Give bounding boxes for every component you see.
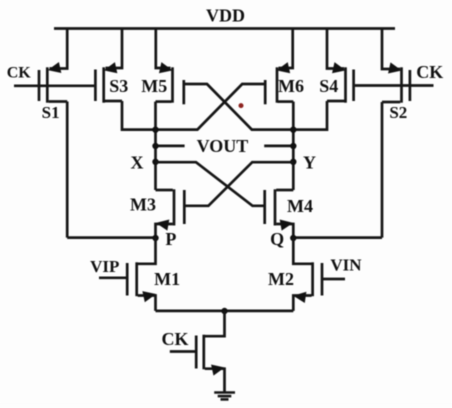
wire: CK to gates of S4 and S2 (355, 84, 434, 87)
wire: node Y vertical (292, 130, 295, 190)
transistor M2 (input NMOS, VIN) (293, 238, 322, 311)
svg-text:P: P (165, 229, 176, 249)
svg-text:M4: M4 (287, 196, 313, 216)
transistor M5 (cross-coupled PMOS) (156, 29, 184, 105)
svg-text:M6: M6 (278, 76, 304, 96)
junction: tail node (221, 308, 227, 314)
svg-text:Y: Y (303, 153, 316, 173)
transistor M7 (tail NMOS, CK) (196, 311, 224, 392)
wire: node Q rail (293, 236, 382, 239)
junction: node P (152, 235, 158, 241)
svg-text:S2: S2 (389, 103, 407, 122)
wire: node X to M4 gate (cross-coupling) (156, 162, 265, 206)
ground (214, 393, 235, 400)
wire: S1 drain to node P (66, 102, 69, 238)
wire: CK to gates of S1 and S3 (14, 84, 94, 87)
svg-text:M5: M5 (141, 76, 167, 96)
wire: S2 drain to node Q (381, 102, 384, 238)
transistor M3 (cross-coupled NMOS) (156, 189, 185, 238)
svg-text:S4: S4 (319, 76, 338, 96)
junction: X drain node (152, 127, 158, 133)
wire: node P rail (67, 236, 155, 239)
transistor M6 (cross-coupled PMOS) (265, 29, 293, 105)
wire: M6 gate to node X (cross-coupling) (156, 84, 265, 130)
svg-text:M2: M2 (268, 269, 294, 289)
VOUT right tap wire (264, 145, 293, 148)
wire: S4 drain to node Y junction (293, 101, 327, 130)
svg-text:VDD: VDD (206, 6, 245, 26)
svg-text:S3: S3 (109, 76, 128, 96)
junction: VOUT left tap (152, 143, 158, 149)
svg-text:VOUT: VOUT (197, 136, 249, 156)
junction: node Q (290, 235, 296, 241)
wire: node Y to M3 gate (cross-coupling) (185, 162, 293, 206)
junction: node X (152, 159, 158, 165)
svg-text:CK: CK (7, 65, 32, 82)
power rail VDD (54, 27, 395, 30)
svg-text:M3: M3 (130, 194, 156, 214)
VOUT left tap wire (156, 145, 185, 148)
wire: VIP to M1 gate (99, 276, 126, 279)
svg-text:M1: M1 (154, 269, 180, 289)
transistor M1 (input NMOS, VIP) (127, 238, 155, 311)
svg-text:X: X (131, 153, 144, 173)
wire: M5 gate to node Y (cross-coupling) (185, 84, 294, 130)
wire: M5 drain to node X junction (154, 102, 157, 130)
svg-text:CK: CK (416, 62, 443, 82)
wire: node X vertical (154, 130, 157, 190)
transistor S2 (PMOS switch) (382, 29, 410, 103)
transistor S4 (PMOS switch) (327, 29, 354, 103)
junction: VOUT right tap (290, 143, 296, 149)
wire: S3 drain to node X junction (122, 101, 156, 130)
junction: node Y (290, 159, 296, 165)
transistor S1 (PMOS switch) (39, 29, 67, 103)
red marker dot (239, 103, 244, 108)
wire: VIN to M2 gate (323, 278, 345, 281)
svg-text:CK: CK (162, 329, 189, 349)
svg-text:VIN: VIN (330, 256, 362, 275)
wire: CK to tail gate (170, 350, 195, 353)
svg-text:VIP: VIP (90, 257, 119, 276)
svg-text:S1: S1 (42, 103, 60, 122)
junction: Y drain node (290, 127, 296, 133)
wire: M6 drain to node Y junction (292, 102, 295, 130)
svg-text:Q: Q (270, 229, 284, 249)
transistor S3 (PMOS switch) (95, 29, 122, 103)
transistor M4 (cross-coupled NMOS) (265, 189, 294, 238)
wire: common source rail (156, 310, 294, 313)
